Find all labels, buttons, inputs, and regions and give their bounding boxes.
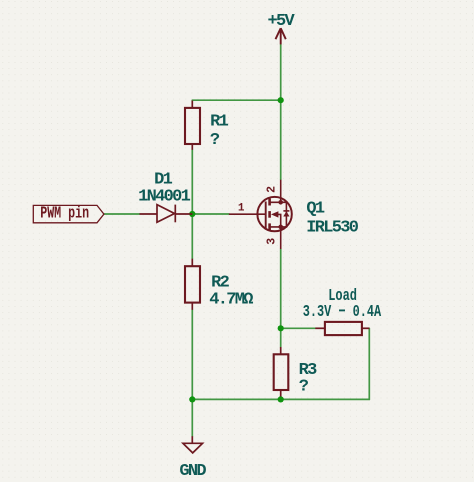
svg-text:R1: R1 [210, 113, 229, 132]
svg-text:3: 3 [265, 238, 278, 245]
svg-text:?: ? [299, 377, 309, 396]
svg-text:4.7MΩ: 4.7MΩ [209, 290, 253, 309]
svg-text:1: 1 [238, 203, 245, 215]
svg-text:2: 2 [265, 186, 278, 193]
svg-text:3.3V − 0.4A: 3.3V − 0.4A [303, 303, 382, 322]
svg-text:1N4001: 1N4001 [138, 188, 191, 207]
svg-text:GND: GND [179, 462, 206, 481]
svg-text:IRL530: IRL530 [306, 219, 359, 238]
svg-text:+5V: +5V [268, 12, 296, 31]
svg-text:Q1: Q1 [306, 200, 325, 219]
svg-text:?: ? [210, 131, 220, 150]
svg-text:PWM pin: PWM pin [40, 205, 89, 224]
